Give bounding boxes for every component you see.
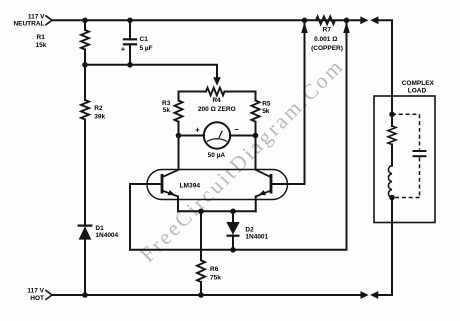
meter M 50uA circle: [204, 122, 230, 148]
wire D1 to hot rail: [84, 240, 86, 295]
junction C1 top rail: [127, 18, 133, 24]
arrow left facing on bottom load wire: [370, 291, 378, 299]
load resistor: [388, 126, 396, 145]
arrow left facing on top load wire: [370, 16, 378, 24]
svg-text:200 Ω ZERO: 200 Ω ZERO: [198, 106, 236, 113]
wire left arm leads: [178, 92, 180, 101]
transistor Q-A emitter arrow: [168, 190, 175, 195]
junction D2 emitter rail: [230, 209, 236, 215]
svg-text:R7: R7: [323, 27, 332, 34]
wire load chain middle: [391, 145, 393, 166]
svg-text:1N4004: 1N4004: [95, 232, 118, 239]
junction D2 feedback rail: [230, 247, 236, 253]
junction C1 bottom rail2: [127, 62, 133, 68]
svg-text:+: +: [121, 45, 126, 54]
junction R1 bottom rail2: [82, 62, 88, 68]
meter needle: [219, 131, 223, 138]
wire R6 branch: [200, 211, 202, 260]
transistor Q-B emitter arrow: [259, 190, 266, 195]
wire right arm leads: [255, 92, 257, 101]
LM394 package outline: [147, 170, 288, 200]
junction load top node: [389, 112, 395, 118]
junction load bottom node: [389, 195, 395, 201]
wire feedback rail y250 and riser x346.5: [130, 20, 347, 250]
junction sense riser top rail: [302, 18, 308, 24]
wire hot rail: [52, 294, 361, 296]
wire x85 vertical top lead R1: [84, 20, 86, 30]
wire R2 leads: [84, 65, 86, 100]
transistor Q-B base bar: [270, 174, 273, 194]
svg-text:COMPLEX: COMPLEX: [402, 80, 435, 87]
svg-text:50 µA: 50 µA: [208, 152, 226, 159]
svg-text:D1: D1: [95, 225, 104, 232]
svg-text:15k: 15k: [36, 42, 47, 49]
meter scale arc: [207, 139, 227, 142]
svg-text:+: +: [195, 126, 200, 135]
wire base right to sense riser x304.5: [272, 20, 304, 184]
resistor R6: [197, 260, 205, 282]
svg-text:117 V: 117 V: [28, 13, 45, 20]
capacitor C1 leads: [129, 20, 131, 39]
wire R1 to rail2: [84, 50, 86, 66]
capacitor C1 plates: [123, 38, 137, 40]
load dashed capacitor branch: [392, 114, 420, 197]
svg-text:117 V: 117 V: [27, 288, 44, 295]
wire emitter drops: [177, 197, 179, 212]
arrow down onto R4 wiper: [213, 77, 221, 86]
svg-text:D2: D2: [245, 226, 254, 233]
wire rail2 horizontal: [85, 65, 217, 78]
svg-text:5k: 5k: [163, 107, 171, 114]
arrow right end of top rail: [360, 16, 368, 24]
wire top rail neutral: [52, 19, 361, 21]
resistor R4: [206, 88, 225, 96]
arrow right end of hot rail: [361, 291, 369, 299]
svg-text:5 µF: 5 µF: [140, 45, 153, 52]
svg-text:LOAD: LOAD: [408, 88, 427, 95]
resistor R2: [81, 100, 89, 120]
svg-text:R2: R2: [94, 105, 103, 112]
svg-text:R5: R5: [262, 101, 271, 108]
svg-text:5k: 5k: [262, 108, 270, 115]
junction R6 hot rail: [198, 292, 204, 298]
junction bridge right node: [253, 133, 259, 139]
resistor R5: [252, 101, 260, 122]
arrow up on riser x346.5: [343, 22, 350, 33]
svg-text:0.001 Ω: 0.001 Ω: [314, 36, 337, 43]
wire from load corner to left arrow top: [378, 20, 392, 126]
svg-text:R4: R4: [212, 97, 221, 104]
svg-text:R1: R1: [37, 34, 46, 41]
svg-text:1N4001: 1N4001: [245, 233, 268, 240]
transistor Q-A collector: [163, 170, 179, 177]
wire bridge top rail: [179, 91, 207, 93]
transistor Q-B collector: [256, 170, 271, 177]
wire base left and riser x130: [130, 184, 161, 250]
diode D2: [226, 222, 239, 235]
terminal 117V HOT: [45, 290, 52, 300]
arrow up on sense riser x304.5: [301, 22, 308, 33]
svg-text:(COPPER): (COPPER): [311, 45, 343, 52]
junction D1 hot rail: [82, 292, 88, 298]
wire load bottom to hot-side corner: [378, 198, 392, 296]
resistor R7: [316, 17, 335, 25]
transistor Q-A emitter: [163, 191, 178, 197]
transistor Q-B emitter: [256, 191, 270, 197]
resistor R1: [81, 30, 89, 50]
svg-text:75k: 75k: [210, 274, 221, 281]
complex load box: [374, 96, 435, 223]
junction bridge left node: [176, 133, 182, 139]
svg-text:LM394: LM394: [180, 183, 201, 190]
wire D2 leads: [232, 211, 234, 222]
svg-text:−: −: [234, 125, 239, 134]
terminal 117V NEUTRAL: [45, 15, 52, 25]
wire emitter rail: [178, 210, 256, 212]
svg-text:HOT: HOT: [30, 295, 44, 302]
svg-text:NEUTRAL: NEUTRAL: [13, 21, 44, 28]
svg-text:C1: C1: [140, 36, 149, 43]
junction R6 emitter rail: [198, 209, 204, 215]
diode D1: [79, 226, 92, 239]
svg-text:R6: R6: [210, 266, 219, 273]
svg-text:39k: 39k: [94, 113, 105, 120]
svg-text:R3: R3: [162, 100, 171, 107]
resistor R3: [175, 101, 183, 122]
load capacitor plates: [413, 150, 427, 152]
junction feedback riser top rail: [344, 18, 350, 24]
junction R1 top rail: [82, 18, 88, 24]
transistor Q-A base bar: [161, 174, 164, 194]
wire meter rail: [179, 135, 205, 137]
load inductor L: [388, 166, 392, 198]
